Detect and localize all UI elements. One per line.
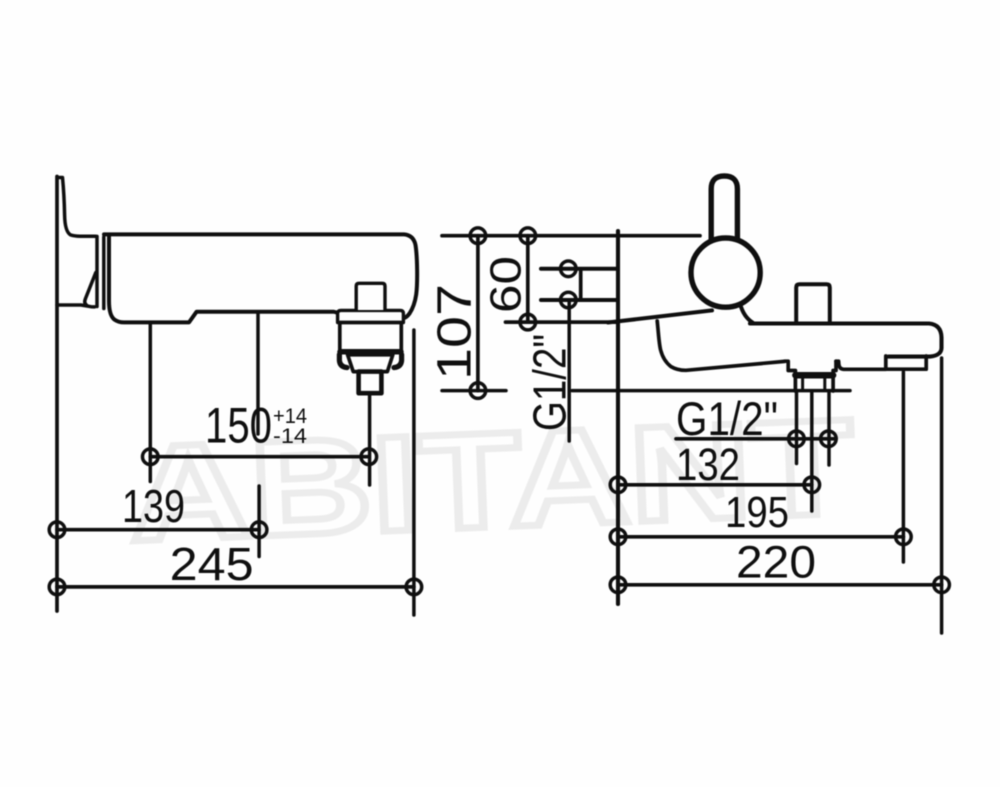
dim circle 245 right <box>406 579 422 595</box>
lever stick <box>711 176 737 245</box>
svg-text:G1/2": G1/2" <box>676 392 778 445</box>
escutcheon bottom profile <box>57 305 95 307</box>
inlet circle bottom <box>561 292 577 308</box>
escutcheon cone vertical 1 <box>95 236 99 306</box>
dim circle 195 right <box>896 529 912 545</box>
outlet inner right <box>823 379 826 390</box>
svg-text:195: 195 <box>725 488 789 537</box>
dim circle 132 left <box>610 477 626 493</box>
dim circle 150 left <box>143 449 159 465</box>
inlet line bottom <box>541 298 618 302</box>
wire wall line right view <box>616 231 620 604</box>
svg-text:132: 132 <box>676 439 740 490</box>
aerator block <box>886 356 926 369</box>
dim line 132 <box>618 483 812 487</box>
fillet hub to top edge <box>740 304 753 323</box>
diverter stem <box>359 372 382 394</box>
dim circle 150 right <box>361 449 377 465</box>
diverter trapezoid <box>348 355 393 372</box>
dim line 220 <box>618 583 942 587</box>
dim circle 107 top <box>470 228 486 244</box>
escutcheon cone diagonal <box>85 273 96 306</box>
body top slope <box>608 310 712 322</box>
dim circle 195 left <box>610 529 626 545</box>
wire wall line left view <box>55 177 59 612</box>
G circle right <box>821 431 837 447</box>
dim line 107 vertical <box>476 236 480 391</box>
diverter block thick bottom edge <box>340 349 401 355</box>
leader center (spout axis) upper part <box>256 314 260 435</box>
dim circle 139 right <box>251 522 267 538</box>
dim circle 60 bottom <box>520 314 536 330</box>
svg-text:220: 220 <box>736 537 816 588</box>
dim circle 107 bottom <box>470 383 486 399</box>
bottom extension line seg1 <box>442 389 506 393</box>
leader from diverter stem <box>368 394 372 486</box>
dim line 195 <box>618 535 903 539</box>
pipe vertical right <box>827 391 831 465</box>
leader from body bottom left <box>149 324 153 482</box>
faucet body outline left view <box>109 236 341 322</box>
body top edge right view <box>750 321 928 325</box>
dim circle 220 left <box>610 577 626 593</box>
body top edge and right cap <box>104 234 417 318</box>
spout underside right of block <box>836 361 886 369</box>
pipe vertical middle <box>810 391 814 511</box>
outlet inner left <box>801 379 804 390</box>
svg-text:-14: -14 <box>273 425 307 448</box>
extension line right edge left view <box>412 330 416 615</box>
escutcheon top profile <box>59 178 96 237</box>
dim circle 60 top <box>520 228 536 244</box>
outlet block thick top band <box>795 372 833 379</box>
svg-text:107: 107 <box>429 284 482 380</box>
G1/2 leader vertical <box>567 300 571 441</box>
bottom extension line seg2 <box>572 389 850 393</box>
escutcheon cone vertical 2 <box>102 237 106 309</box>
dim circle 132 right <box>804 477 820 493</box>
diverter main block <box>340 323 402 352</box>
pipe vertical left <box>795 391 799 464</box>
svg-text:150: 150 <box>205 398 272 454</box>
diverter flange <box>338 310 404 322</box>
leader aerator <box>902 372 906 562</box>
dim line 150 <box>150 455 368 459</box>
spout underside left of block <box>657 321 784 370</box>
G1/2 leader bottom <box>676 437 836 441</box>
watermark ABITANT <box>126 390 856 570</box>
extension right edge spout <box>940 358 944 633</box>
outlet block right step <box>833 361 836 391</box>
leader center lower part <box>257 486 261 557</box>
dim circle 245 left <box>49 579 65 595</box>
diverter knob <box>356 283 385 310</box>
dim circle 220 right <box>934 577 950 593</box>
spout right end <box>889 324 942 357</box>
extension line y322 <box>506 320 619 324</box>
G circle left <box>789 431 805 447</box>
dim line 139 <box>57 528 259 532</box>
diverter right ear <box>394 355 402 368</box>
svg-text:60: 60 <box>482 256 531 313</box>
inlet connector vertical <box>579 269 583 300</box>
handle hub circle <box>691 238 760 307</box>
svg-text:G1/2": G1/2" <box>524 334 576 431</box>
diverter left ear <box>339 355 347 368</box>
dim line 245 <box>57 585 414 589</box>
outlet block left step <box>785 361 796 391</box>
top extension line <box>442 234 700 238</box>
shower knob <box>796 284 830 321</box>
svg-text:139: 139 <box>122 480 185 532</box>
inlet line top <box>541 267 618 271</box>
inlet circle top <box>561 261 577 277</box>
dim circle 139 left <box>49 522 65 538</box>
svg-text:245: 245 <box>170 538 254 590</box>
dim line 60 vertical <box>526 236 530 322</box>
